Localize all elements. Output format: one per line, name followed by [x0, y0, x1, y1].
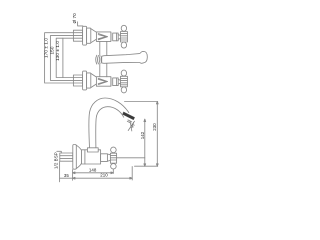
wall nipple: [73, 75, 82, 86]
flange collar: [87, 28, 91, 43]
handle bottom lobe: [121, 42, 126, 48]
label 1/2 BSP with leader: [53, 151, 61, 169]
flange cone: [91, 73, 97, 87]
aerator: [127, 120, 131, 123]
svg-text:130 ± 1.0: 130 ± 1.0: [55, 41, 60, 61]
side handle top lobe: [111, 147, 117, 153]
flange collar: [87, 73, 91, 88]
spout base nut: [87, 148, 98, 152]
top view: connecting trunk pipe: [100, 41, 107, 76]
svg-text:150: 150: [49, 46, 54, 54]
stem neck: [118, 35, 120, 40]
side view: wall nipple: [60, 145, 117, 170]
svg-text:142: 142: [140, 131, 145, 139]
side handle bottom lobe: [111, 164, 117, 169]
dimension 150 line: [49, 36, 73, 81]
handle top lobe: [121, 70, 126, 76]
flange cone: [91, 29, 97, 43]
top view: swivel spout arm: [102, 52, 148, 64]
side taper to handle: [107, 154, 110, 161]
top view: cold valve assembly: [73, 70, 127, 93]
bonnet ring: [110, 33, 112, 41]
extension bracket: [62, 38, 64, 77]
cross handle hub: [121, 32, 128, 43]
dimension 170±1.0 line: [44, 33, 74, 83]
dimension 230: [152, 102, 158, 167]
dimension 148: [73, 168, 114, 174]
spout outlet face: [123, 112, 135, 120]
svg-text:148: 148: [89, 168, 97, 173]
top view: spout swivel joint: [96, 55, 102, 64]
bonnet ring: [110, 77, 112, 85]
side valve body: [82, 150, 101, 164]
centerline to 142: [117, 157, 145, 159]
top view: hot valve assembly: [73, 25, 127, 48]
side flange cone: [76, 145, 81, 168]
svg-text:230: 230: [152, 123, 157, 131]
wall flange plate: [83, 71, 87, 90]
wall flange plate: [83, 26, 87, 45]
extension line spout top: [125, 101, 158, 103]
stem neck: [118, 80, 120, 85]
handle bottom lobe: [121, 87, 126, 93]
svg-text:210: 210: [100, 173, 108, 178]
valve body: [96, 32, 111, 42]
spindle stem: [113, 78, 119, 86]
dimension 142: [140, 119, 146, 166]
svg-text:Ø 70: Ø 70: [72, 13, 77, 24]
svg-text:1/2 BSP: 1/2 BSP: [53, 152, 58, 169]
svg-text:35: 35: [64, 173, 69, 178]
wall nipple: [73, 30, 82, 41]
svg-text:95°: 95°: [130, 121, 137, 128]
side flange plate: [73, 145, 77, 170]
side view: swan-neck spout inner curve: [96, 107, 124, 148]
dimension 35: [60, 162, 73, 182]
cross handle hub: [121, 76, 128, 87]
baseline: [135, 165, 158, 167]
dimension 210: [73, 167, 133, 180]
dimension 130±1.0 line: [55, 38, 73, 77]
valve body: [96, 77, 111, 87]
side view: swan-neck spout outer curve: [89, 98, 129, 148]
side handle hub: [110, 153, 116, 163]
spindle stem: [113, 33, 119, 41]
svg-text:170 ± 1.0: 170 ± 1.0: [44, 38, 49, 58]
angle dimension 95°: [128, 121, 136, 131]
handle top lobe: [121, 25, 126, 31]
label Ø70 with leader: [72, 13, 83, 26]
